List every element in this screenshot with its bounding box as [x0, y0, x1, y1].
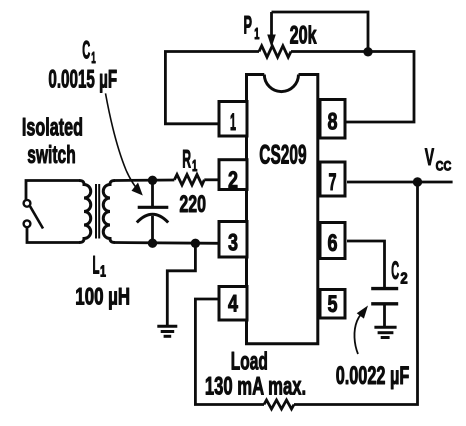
svg-text:V: V	[425, 144, 434, 171]
capacitor C1 straight plate	[138, 206, 169, 209]
wire pin 6 to C2	[347, 241, 385, 287]
svg-text:220: 220	[179, 191, 206, 218]
inductor L1 secondary winding	[103, 181, 115, 243]
pin 5 box	[320, 290, 345, 319]
svg-text:1: 1	[254, 26, 259, 43]
arrow pointer to C1	[106, 93, 139, 190]
wire switch loop top	[26, 181, 79, 201]
capacitor C1 stem bottom	[151, 216, 154, 243]
node: C1 top junction dot	[148, 176, 157, 185]
transformer core	[96, 184, 99, 239]
svg-text:0.0015 µF: 0.0015 µF	[48, 65, 117, 93]
wire pin 7 to Vcc	[347, 181, 453, 184]
op-amp U1 CS209 IC body	[247, 75, 318, 344]
svg-text:130 mA max.: 130 mA max.	[205, 372, 306, 400]
ground symbol left	[157, 326, 177, 336]
svg-text:C: C	[82, 37, 90, 65]
wire pin1 to top-left loop	[165, 52, 259, 124]
switch contact circle bottom	[24, 220, 31, 227]
pin 7 box	[320, 162, 345, 196]
wire pin 4 to bottom rail	[195, 299, 264, 405]
wiper arrowhead	[267, 35, 276, 48]
svg-text:2: 2	[228, 167, 238, 194]
pin 1 box	[219, 102, 247, 137]
svg-text:1: 1	[192, 158, 197, 175]
svg-text:5: 5	[328, 291, 338, 318]
pin 6 box	[320, 223, 345, 259]
svg-text:2: 2	[400, 271, 407, 288]
wire secondary bottom to pin 3	[115, 241, 219, 245]
capacitor C2 top plate	[371, 287, 398, 290]
svg-text:switch: switch	[27, 141, 75, 169]
wire secondary top to R1	[115, 179, 174, 182]
svg-text:R: R	[182, 145, 191, 173]
arrow pointer to C2	[354, 314, 361, 355]
svg-text:C: C	[391, 257, 399, 285]
svg-text:8: 8	[328, 109, 338, 136]
capacitor C1 stem top	[151, 180, 154, 207]
node: Vcc junction dot	[413, 177, 422, 186]
pin 3 box	[219, 222, 247, 258]
capacitor C2 bottom plate	[371, 302, 398, 305]
resistor load zigzag	[264, 400, 294, 409]
pin 8 box	[320, 100, 345, 139]
svg-text:4: 4	[228, 291, 238, 318]
wire pot wiper stem	[270, 12, 273, 36]
svg-text:CC: CC	[436, 158, 452, 174]
svg-text:6: 6	[328, 230, 338, 257]
svg-text:3: 3	[228, 230, 238, 257]
wire switch loop bottom	[27, 227, 79, 243]
ground symbol right	[374, 327, 396, 337]
resistor R1 zigzag	[174, 175, 204, 186]
wire pot to top-right corner down to pin 8	[291, 52, 414, 123]
svg-text:0.0022 µF: 0.0022 µF	[336, 362, 410, 390]
capacitor C1 curved plate	[137, 214, 168, 222]
capacitor C2 stem bottom	[383, 304, 386, 328]
transformer primary winding	[79, 181, 91, 243]
wire ground branch	[167, 243, 195, 326]
svg-text:100 µH: 100 µH	[75, 283, 130, 310]
switch contact circle top	[24, 200, 31, 207]
potentiometer P1 zigzag	[259, 46, 291, 57]
pin 2 box	[219, 160, 247, 190]
svg-text:1: 1	[230, 109, 236, 136]
node: C1 bottom junction dot	[148, 239, 157, 248]
svg-text:1: 1	[100, 263, 106, 280]
IC notch	[264, 75, 298, 92]
wire R1 to pin 2	[204, 178, 219, 181]
switch blade	[30, 206, 43, 228]
svg-text:P: P	[244, 12, 253, 40]
svg-text:CS209: CS209	[259, 140, 306, 170]
node: ground branch junction dot	[191, 239, 200, 248]
svg-text:20k: 20k	[290, 22, 317, 50]
node: wiper junction dot	[363, 47, 372, 56]
wire wiper to junction	[272, 12, 369, 52]
svg-text:7: 7	[329, 169, 337, 196]
svg-text:Isolated: Isolated	[22, 114, 83, 142]
wire load to Vcc rail	[294, 182, 418, 405]
svg-text:L: L	[93, 251, 100, 279]
pin 4 box	[219, 287, 247, 321]
